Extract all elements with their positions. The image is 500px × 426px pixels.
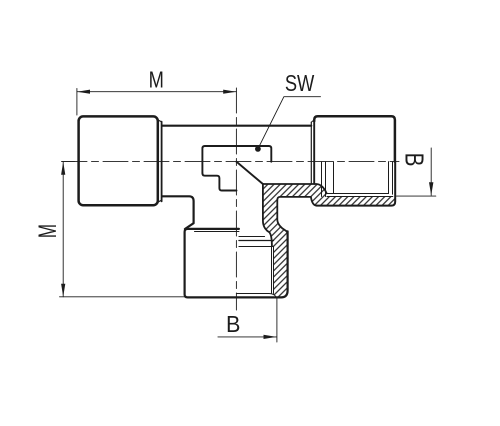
- hatch fill bottom-right section: [263, 184, 395, 297]
- bottom nut top chamfer line: [195, 231, 239, 233]
- cylinder top edge: [163, 125, 312, 127]
- section: right nut end inner wall line: [392, 162, 394, 195]
- section: right nut inner end line: [388, 162, 390, 194]
- right nut: [314, 116, 395, 161]
- dimension M top: arrows: [77, 90, 90, 94]
- dimension B bottom: extension line: [276, 299, 278, 342]
- section: bottom port face lines: [239, 236, 265, 238]
- centerline vertical: [235, 88, 237, 310]
- left nut collar bevel top: [157, 120, 161, 122]
- right nut left face lines: [313, 120, 315, 184]
- section: bottom branch outer wall with flare: [277, 200, 287, 234]
- dimension B right: line: [430, 148, 432, 195]
- section: right nut bottom outline: [316, 162, 395, 206]
- dimension B right: tick: [397, 195, 436, 197]
- dimension M left: line: [62, 162, 64, 297]
- bottom nut outline: [185, 229, 288, 298]
- dimension M left: extension line bottom: [60, 296, 185, 298]
- section: right port bore line with step: [263, 184, 327, 193]
- dimension M top: extension line: [76, 89, 78, 116]
- section: drill cone diagonal: [236, 162, 263, 184]
- section: right nut face lines: [321, 162, 323, 197]
- centerline horizontal: [62, 161, 399, 163]
- section: bottom port thread lines: [271, 246, 273, 293]
- hex body lower-left steps: [202, 173, 236, 190]
- svg-text:M: M: [34, 224, 62, 238]
- left nut collar: [161, 122, 163, 202]
- section: body outer line with step down: [277, 197, 316, 206]
- left nut collar bevel bottom: [157, 200, 161, 202]
- svg-text:B: B: [226, 311, 240, 337]
- section: bottom port bore line with flare: [263, 184, 272, 246]
- section: bottom port inner end line: [236, 294, 276, 298]
- cylinder bottom edge + branch left wall: [163, 196, 194, 229]
- svg-text:M: M: [149, 68, 164, 94]
- hex body top (external): [202, 146, 271, 173]
- dimension B bottom: line: [218, 336, 277, 338]
- SW leader: [258, 97, 320, 149]
- svg-text:SW: SW: [285, 71, 315, 97]
- dimension M top: line: [77, 91, 237, 93]
- section: right port thread crest line: [327, 196, 393, 198]
- dimension M left: arrows: [61, 162, 65, 175]
- svg-text:B: B: [400, 153, 429, 167]
- dimension M left: tick at centerline: [62, 161, 75, 163]
- left nut: [79, 116, 158, 205]
- section: right port thread root line: [327, 193, 389, 195]
